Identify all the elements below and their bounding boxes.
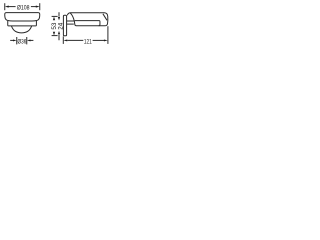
support arm top: [67, 20, 75, 22]
dimension ⌀108 line right: [31, 6, 36, 8]
dimension 121 extension line right: [107, 26, 109, 44]
support arm bottom: [67, 23, 74, 25]
dish side view: inner bottom: [75, 21, 100, 26]
vertical dimension B arrow up: [58, 31, 60, 35]
vertical dimension B line lower stub: [58, 35, 60, 40]
dish front view: plate silhouette: [5, 13, 40, 21]
dish front view: lower band: [8, 21, 37, 26]
vertical dimension B line upper stub: [58, 12, 60, 16]
dimension 121 line left: [67, 39, 83, 41]
dimension ⌀108 arrow right: [36, 6, 40, 8]
dimension ⌀36 extension tick right: [26, 37, 28, 44]
vertical dimension B arrow down: [58, 17, 60, 21]
dimension 121 line right: [93, 39, 105, 41]
dimension ⌀36 line right: [30, 39, 33, 41]
vertical dimension A arrow down: [53, 32, 55, 36]
dimension ⌀36 arrow left (points right at tick): [13, 39, 17, 41]
dimension ⌀108 extension tick right: [39, 3, 41, 10]
svg-text:Ø36: Ø36: [18, 39, 27, 46]
svg-text:Ø108: Ø108: [17, 5, 30, 12]
dimension ⌀36 extension tick left: [16, 37, 18, 44]
dish side view: outer silhouette: [67, 13, 108, 26]
vertical dimension A arrow up: [53, 17, 55, 21]
dimension 121 extension tick left: [62, 36, 64, 44]
dish side view: inner rim edge right: [103, 14, 107, 20]
svg-text:121: 121: [84, 38, 92, 45]
dimension ⌀36 line left: [10, 39, 13, 41]
dimension ⌀108 arrow left: [5, 6, 9, 8]
dimension ⌀108 line left: [8, 6, 15, 8]
wall bracket (side view): [63, 15, 66, 36]
vertical dimension A tick bottom: [52, 35, 58, 37]
dimension 121 arrow left: [63, 39, 67, 41]
dimension ⌀108 extension tick left: [4, 3, 6, 10]
dimension ⌀36 arrow right (points left at tick): [27, 39, 31, 41]
vertical dimension A tick top: [52, 15, 58, 17]
dish front view: bowl underside arc: [11, 26, 31, 33]
dimension 121 arrow right: [104, 39, 108, 41]
